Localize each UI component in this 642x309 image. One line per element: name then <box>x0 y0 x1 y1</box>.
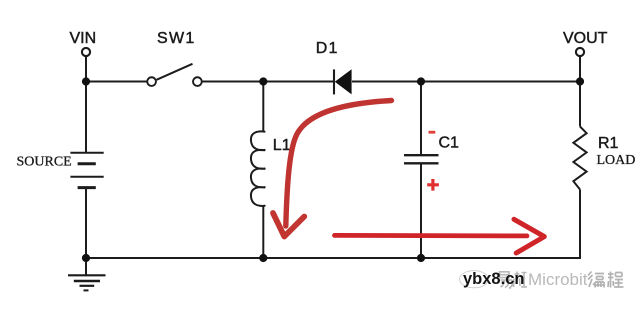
junction dot VOUT rail <box>576 77 584 85</box>
wire: diode anode to VOUT junction <box>352 81 580 83</box>
ground stub <box>85 258 87 275</box>
watermark gray hanzi cheng <box>608 272 624 288</box>
wire: top rail VIN junction to switch left contact <box>86 81 147 83</box>
switch SW1 left contact circle <box>147 77 156 86</box>
diode D1 cathode bar <box>333 69 335 94</box>
junction dot ground <box>82 254 90 262</box>
ground bar 2 <box>74 280 100 282</box>
battery SOURCE short plate 2 <box>78 186 96 189</box>
junction dot C1 top <box>417 77 425 85</box>
battery SOURCE short plate 1 <box>78 162 96 165</box>
diode D1 triangle <box>335 69 352 94</box>
capacitor C1 minus sign <box>429 131 436 134</box>
svg-text:C1: C1 <box>439 135 460 152</box>
svg-text:Microbit: Microbit <box>528 270 588 289</box>
wire: L1 branch bottom <box>262 206 264 258</box>
capacitor C1 plus sign <box>427 179 439 191</box>
capacitor C1 top plate <box>404 154 439 156</box>
wire: battery bottom to ground junction <box>85 188 87 258</box>
wire: bottom rail <box>86 257 581 259</box>
capacitor C1 bottom plate <box>404 162 439 164</box>
junction dot L1 bottom <box>259 254 267 262</box>
wire: resistor bottom to bottom rail <box>579 190 581 259</box>
wire: switch to diode cathode <box>203 81 334 83</box>
wire: L1 branch top <box>262 82 264 132</box>
junction dot VIN rail <box>82 77 90 85</box>
ground bar 3 <box>80 285 95 287</box>
battery SOURCE long plate 1 <box>70 152 103 154</box>
inductor L1 coils <box>251 131 265 206</box>
resistor R1 zigzag <box>573 127 586 190</box>
svg-text:VIN: VIN <box>70 30 97 47</box>
switch SW1 blade <box>157 64 193 80</box>
wire: VIN vertical from terminal to battery top plate <box>85 57 87 153</box>
red curved arrow head <box>273 213 304 237</box>
svg-text:SW1: SW1 <box>157 30 196 47</box>
wire: C1 branch top <box>420 82 422 155</box>
svg-text:ybx8.cn: ybx8.cn <box>463 270 524 288</box>
svg-text:D1: D1 <box>316 40 339 57</box>
svg-text:R1: R1 <box>598 135 619 152</box>
ground bar 1 <box>68 274 106 276</box>
ground bar 4 <box>84 289 89 291</box>
watermark gray hanzi 2 (partially hidden) <box>514 272 528 288</box>
red curved arrow shaft (inductor current) <box>286 101 392 227</box>
switch SW1 right contact circle <box>193 77 202 86</box>
wire: C1 branch bottom <box>420 164 422 258</box>
red horizontal arrow shaft (output current) <box>335 233 528 238</box>
watermark gray hanzi yi (easy) <box>500 272 513 288</box>
terminal VIN circle <box>82 48 90 56</box>
svg-text:L1: L1 <box>273 137 291 154</box>
terminal VOUT circle <box>576 48 584 56</box>
watermark gray hanzi bian <box>588 272 604 288</box>
junction dot L1 top <box>259 77 267 85</box>
svg-text:VOUT: VOUT <box>563 30 608 47</box>
svg-text:LOAD: LOAD <box>597 153 636 168</box>
svg-text:SOURCE: SOURCE <box>17 155 72 170</box>
watermark faint ellipse <box>460 271 489 288</box>
junction dot C1 bottom <box>417 254 425 262</box>
wire: VOUT vertical down to resistor top <box>579 57 581 127</box>
red horizontal arrow head <box>514 219 544 253</box>
battery SOURCE long plate 2 <box>70 176 103 178</box>
